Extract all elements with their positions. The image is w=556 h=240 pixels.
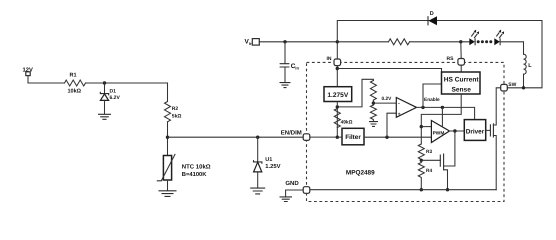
wire LEDs to inductor	[500, 42, 523, 54]
resistor Rsense	[389, 39, 410, 45]
svg-text:R3: R3	[426, 149, 432, 155]
node junction U1	[256, 136, 259, 139]
svg-text:R2: R2	[172, 106, 179, 112]
comparator PWM	[431, 121, 449, 143]
wire 12V to R1	[28, 76, 65, 83]
resistor R2 5k	[165, 102, 171, 122]
svg-text:NTC 10kΩ: NTC 10kΩ	[182, 163, 211, 170]
wire Vin to sense resistor	[259, 41, 388, 43]
wire HS sense out to PWM input	[421, 94, 461, 144]
transistor Q2 dimming FET	[444, 131, 455, 166]
svg-text:49kΩ: 49kΩ	[341, 119, 353, 125]
thermistor NTC 10k	[163, 156, 171, 181]
pin SW	[501, 84, 508, 91]
node junction SW	[522, 86, 525, 89]
ground GND pin	[280, 197, 293, 202]
block HS Current Sense	[442, 72, 481, 94]
wire EN/DIM pin to Filter	[310, 136, 342, 138]
node junction filter line	[336, 136, 339, 139]
node junction IN / top loop	[336, 40, 339, 43]
node 0.2V tap	[372, 101, 375, 104]
svg-text:PWM: PWM	[433, 131, 445, 137]
wire top loop with diode	[337, 21, 542, 88]
resistor R1 10k	[65, 80, 86, 86]
resistor R4	[418, 160, 424, 189]
node junction D1	[103, 81, 106, 84]
svg-text:Enable: Enable	[424, 97, 440, 103]
ground below Cin	[280, 83, 291, 88]
svg-text:GND: GND	[285, 180, 299, 187]
pin GND	[303, 187, 310, 194]
wire down to R2	[167, 83, 169, 102]
node dots between LEDs	[477, 40, 480, 43]
wire to LEDs	[410, 41, 470, 43]
wire EN/DIM line	[168, 136, 304, 138]
svg-text:6.2V: 6.2V	[110, 95, 121, 101]
LED 1	[469, 38, 475, 45]
capacitor Cin	[284, 42, 286, 64]
svg-text:D1: D1	[110, 89, 117, 95]
op-amp error amplifier	[396, 98, 416, 118]
svg-text:IN: IN	[327, 56, 332, 62]
svg-text:B=4100K: B=4100K	[182, 171, 207, 178]
wire IN rail to HS box	[337, 69, 441, 73]
resistor divider upper	[370, 81, 376, 101]
wire IN stub	[336, 42, 338, 59]
wire R1 to R2 corner	[86, 82, 168, 84]
wire EA out to PWM ramp	[441, 107, 443, 125]
svg-text:+: +	[398, 111, 401, 117]
resistor R3	[418, 144, 424, 160]
diode D freewheeling	[427, 16, 429, 25]
inductor L	[524, 54, 527, 74]
wire divider top	[337, 79, 373, 107]
resistor divider lower	[370, 105, 376, 121]
LED 2	[494, 38, 500, 45]
wire Filter to PWM	[364, 136, 431, 138]
svg-text:U1: U1	[265, 157, 272, 163]
resistor 49k	[334, 109, 340, 128]
ground below D1	[98, 114, 111, 119]
diode U1 zener 1.25V	[257, 137, 259, 162]
svg-text:RS: RS	[447, 56, 455, 62]
svg-text:1.275V: 1.275V	[327, 92, 349, 99]
block 1.275V reference	[324, 87, 352, 102]
wire PWM out to Driver	[450, 130, 465, 132]
ground below U1	[250, 188, 265, 194]
svg-text:1.25V: 1.25V	[265, 163, 280, 170]
svg-text:MPQ2489: MPQ2489	[346, 170, 375, 177]
node junction Cin	[283, 40, 286, 43]
svg-text:0.2V: 0.2V	[382, 96, 393, 102]
diode D1 zener 6.2V	[104, 83, 106, 94]
svg-text:Filter: Filter	[345, 134, 361, 141]
svg-text:Driver: Driver	[466, 128, 485, 135]
svg-text:10kΩ: 10kΩ	[68, 89, 82, 95]
node junction EN/DIM line	[166, 136, 169, 139]
wire ref to divider node	[336, 102, 338, 138]
svg-text:D: D	[430, 11, 434, 17]
wire Enable	[423, 84, 442, 107]
pin IN	[334, 59, 341, 66]
wire RS stub	[460, 42, 462, 59]
wire EA plus input from filter line	[387, 113, 396, 137]
svg-text:SW: SW	[508, 82, 516, 88]
wire EA output	[417, 107, 475, 119]
wire GND pin to ground	[286, 190, 304, 197]
svg-text:R4: R4	[426, 168, 432, 174]
svg-text:R1: R1	[70, 73, 77, 79]
svg-text:5kΩ: 5kΩ	[172, 114, 182, 120]
pin EN/DIM	[303, 134, 310, 141]
ground below NTC	[159, 191, 177, 197]
wire R2 to NTC	[167, 122, 169, 156]
wire inductor to SW line	[523, 74, 525, 88]
block Driver	[464, 120, 485, 141]
svg-text:HS Current: HS Current	[444, 76, 480, 83]
svg-text:Sense: Sense	[451, 86, 471, 93]
svg-text:EN/DIM: EN/DIM	[281, 130, 302, 137]
wire GND rail	[310, 189, 496, 191]
svg-text:in: in	[295, 66, 299, 71]
block Filter	[342, 128, 364, 145]
transistor Q1 power FET	[486, 129, 490, 131]
svg-text:-: -	[398, 101, 400, 107]
ground divider	[369, 122, 378, 127]
node junction RS	[459, 40, 462, 43]
pin RS	[458, 59, 465, 66]
MPQ2489 dashed box	[307, 62, 505, 201]
